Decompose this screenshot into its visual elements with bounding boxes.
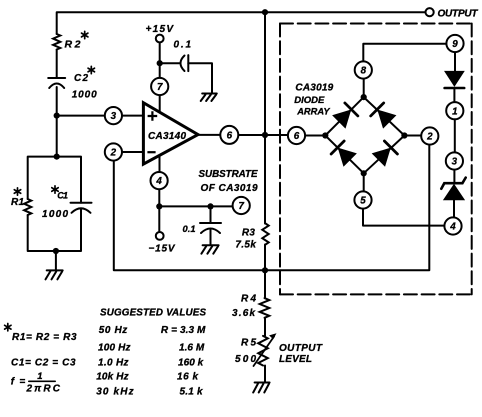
svg-text:1.6 M: 1.6 M	[179, 343, 205, 354]
svg-text:4: 4	[155, 176, 162, 187]
svg-text:C1: C1	[57, 191, 68, 201]
svg-text:0.1: 0.1	[183, 224, 196, 234]
svg-text:2: 2	[426, 132, 433, 143]
svg-text:10k Hz: 10k Hz	[96, 372, 128, 383]
svg-text:OF CA3019: OF CA3019	[201, 183, 258, 194]
svg-text:4: 4	[449, 222, 456, 233]
svg-text:1000: 1000	[72, 90, 97, 101]
svg-text:6: 6	[227, 130, 233, 141]
svg-text:5: 5	[360, 196, 366, 207]
svg-text:16 k: 16 k	[177, 372, 198, 383]
svg-text:R1: R1	[11, 197, 24, 208]
svg-text:CA3140: CA3140	[148, 131, 186, 142]
svg-text:+15V: +15V	[146, 24, 175, 35]
svg-text:50 Hz: 50 Hz	[99, 325, 128, 336]
svg-text:7: 7	[238, 201, 244, 212]
svg-text:R1= R2 = R3: R1= R2 = R3	[12, 332, 77, 343]
svg-text:3: 3	[452, 157, 458, 168]
svg-text:CA3019: CA3019	[295, 83, 333, 94]
svg-text:LEVEL: LEVEL	[279, 354, 312, 365]
svg-text:SUGGESTED VALUES: SUGGESTED VALUES	[100, 308, 206, 319]
svg-text:500: 500	[235, 354, 256, 365]
svg-text:1: 1	[37, 371, 42, 382]
svg-text:f =: f =	[11, 376, 26, 387]
svg-text:2πRC: 2πRC	[26, 384, 61, 395]
svg-text:R3: R3	[242, 228, 255, 239]
svg-text:SUBSTRATE: SUBSTRATE	[199, 169, 258, 180]
svg-text:6: 6	[294, 131, 300, 142]
svg-text:1: 1	[452, 106, 457, 117]
svg-text:7.5k: 7.5k	[235, 239, 256, 250]
svg-text:C1= C2 = C3: C1= C2 = C3	[11, 358, 76, 369]
svg-text:DIODE: DIODE	[294, 95, 325, 106]
svg-text:9: 9	[452, 39, 458, 50]
svg-text:3: 3	[111, 111, 117, 122]
svg-text:8: 8	[361, 66, 367, 77]
svg-text:R = 3.3 M: R = 3.3 M	[161, 325, 206, 336]
svg-text:5.1 k: 5.1 k	[180, 387, 203, 398]
svg-text:1000: 1000	[42, 209, 68, 220]
svg-text:−15V: −15V	[149, 243, 176, 254]
svg-text:7: 7	[157, 82, 163, 93]
svg-text:2: 2	[110, 148, 117, 159]
svg-text:160 k: 160 k	[178, 358, 204, 369]
svg-text:3.6k: 3.6k	[232, 308, 255, 319]
svg-text:ARRAY: ARRAY	[296, 107, 330, 117]
svg-text:OUTPUT: OUTPUT	[438, 9, 479, 20]
svg-text:OUTPUT: OUTPUT	[279, 343, 323, 354]
svg-text:1.0 Hz: 1.0 Hz	[98, 358, 129, 369]
svg-text:0.1: 0.1	[174, 40, 192, 51]
svg-text:C2: C2	[74, 73, 88, 84]
svg-text:100 Hz: 100 Hz	[98, 343, 131, 354]
